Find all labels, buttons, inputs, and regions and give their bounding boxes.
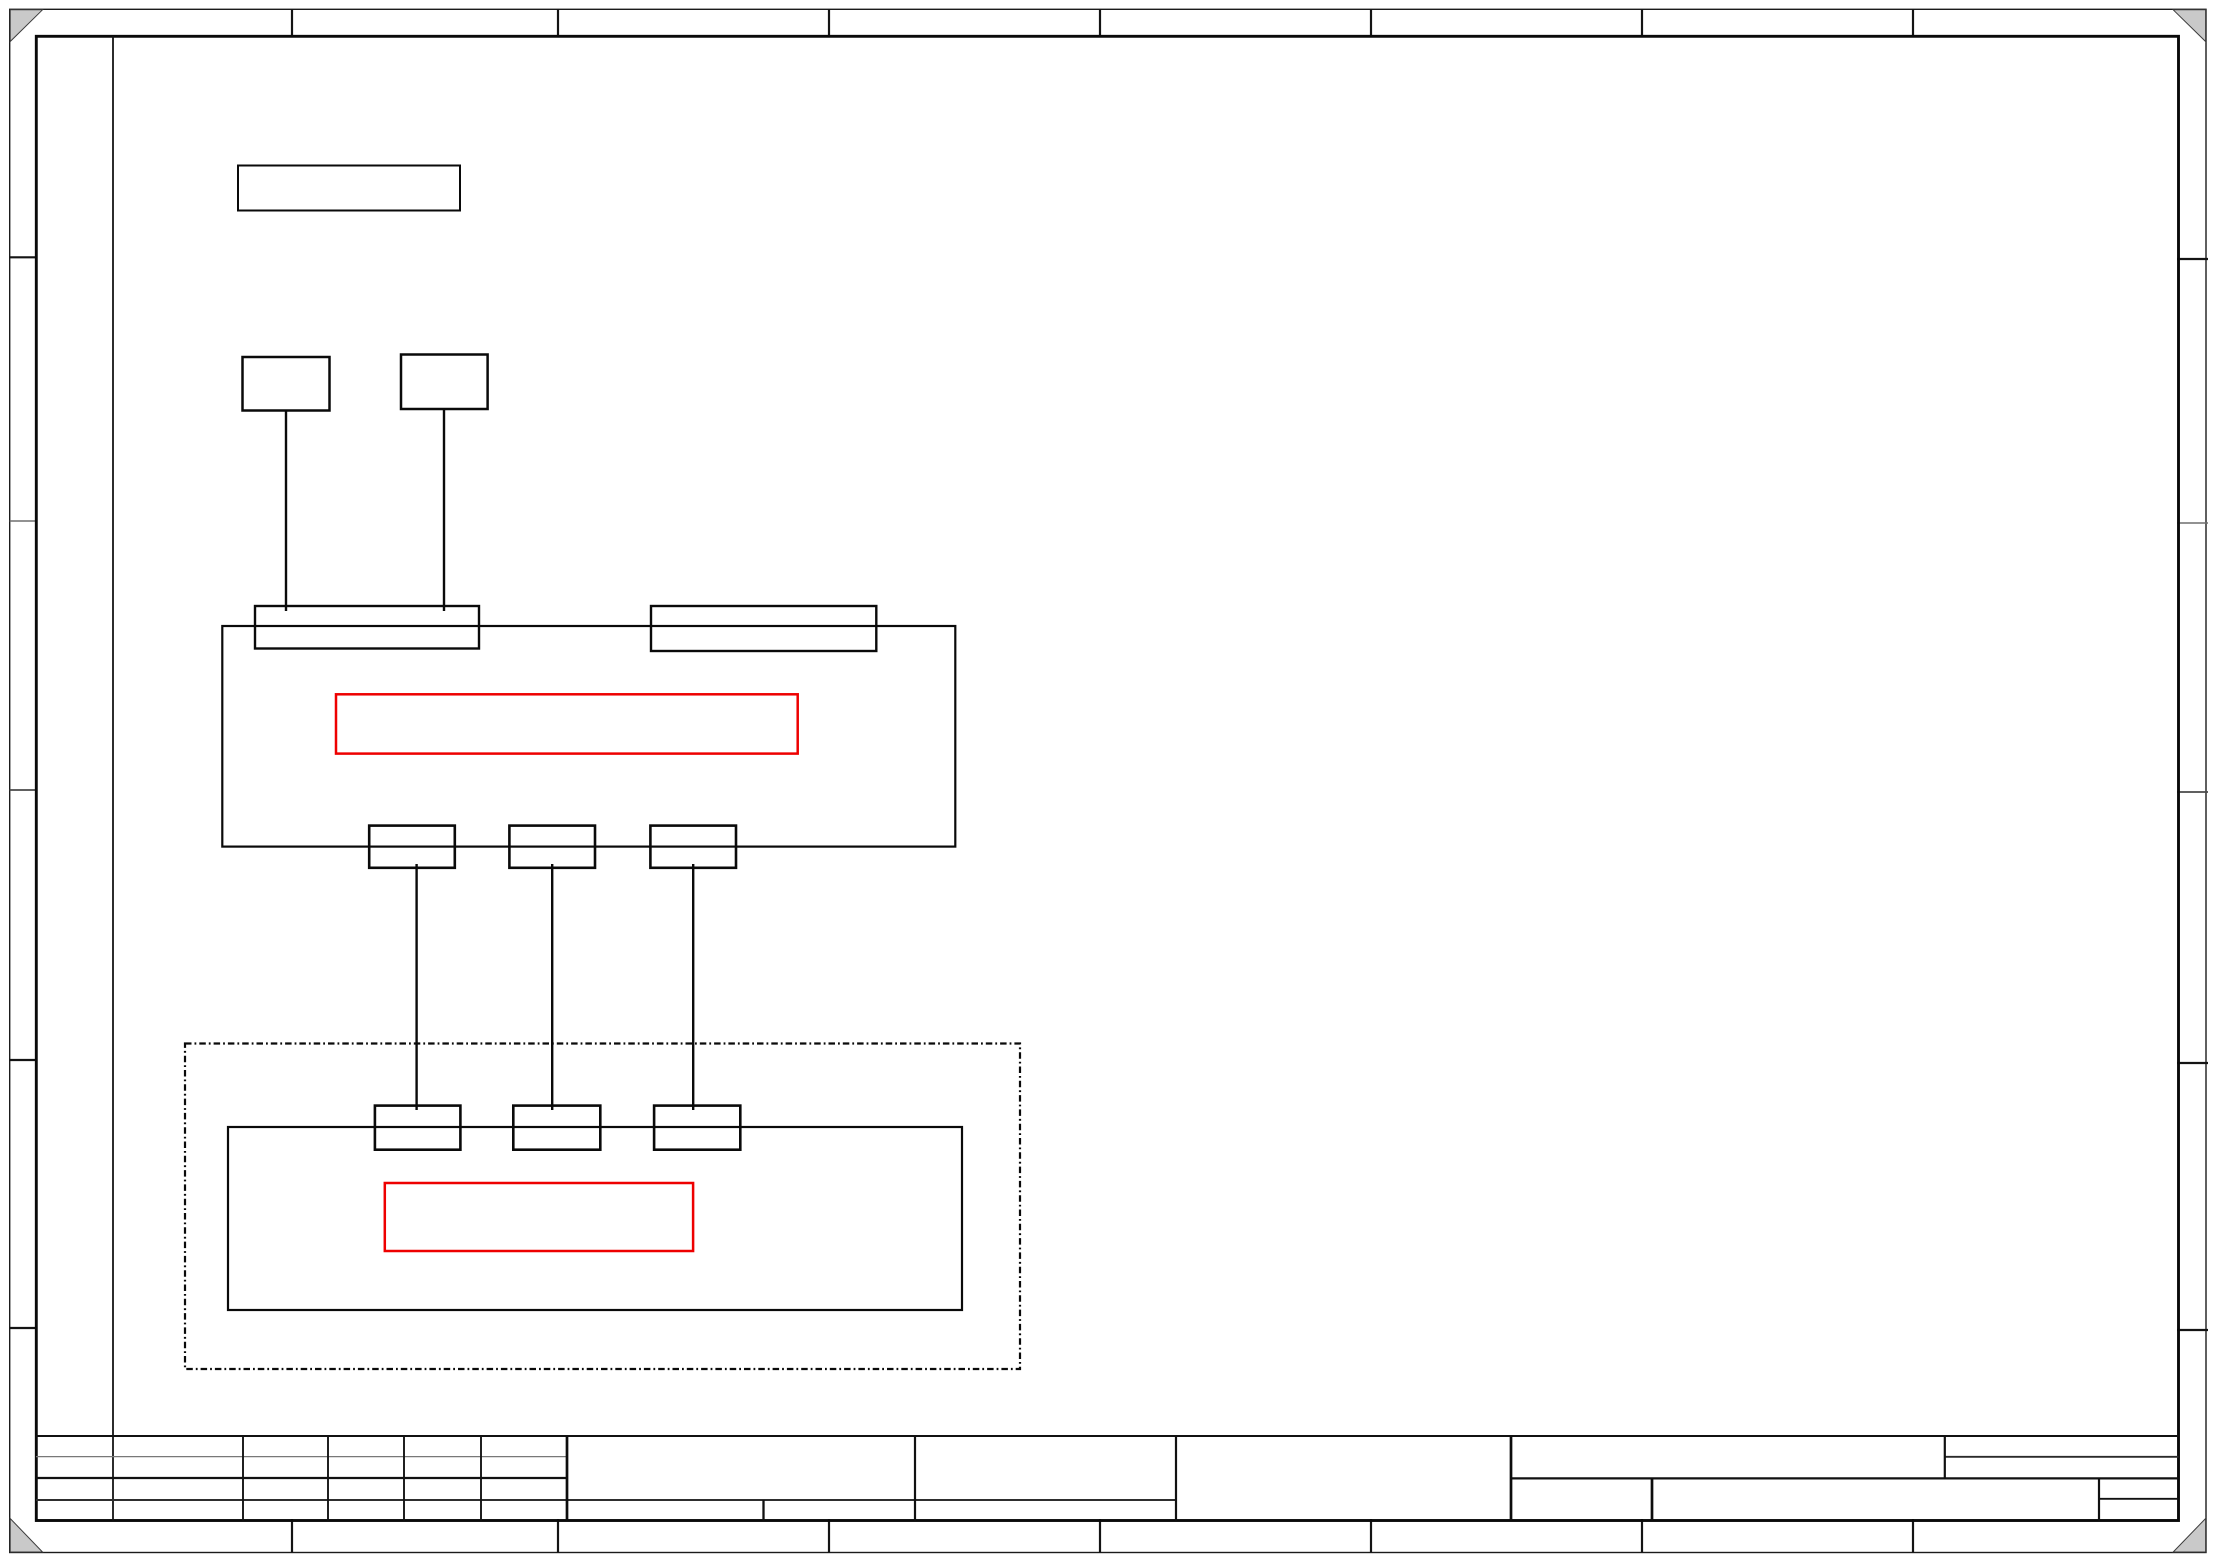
port P3 [369,826,455,868]
port P1 [255,606,479,649]
title block row line r3 left [36,1499,1176,1501]
port P4 [509,826,595,868]
corner triangle bottom-left [10,1519,42,1553]
title block row line r2 left [36,1477,567,1479]
wire W3 [415,864,417,1110]
title block top line [36,1435,2179,1437]
title block column c2 [327,1436,329,1521]
port P6 [375,1106,461,1150]
title block column c5 [566,1436,569,1521]
dash-dot boundary [185,1044,1020,1370]
title block row line r3 right [2099,1498,2179,1500]
zone tick marks right edge [2177,259,2208,1330]
corner triangle bottom-right [2173,1519,2205,1553]
module M2 [228,1127,962,1310]
title block column c10 [1651,1478,1654,1520]
port P2 [651,606,876,651]
title block column c11 [1944,1436,1946,1478]
port P5 [650,826,736,868]
wire W4 [551,864,553,1110]
wire W5 [692,864,694,1110]
title block column c6 [762,1500,764,1521]
red label box L1 [336,694,798,753]
title block row line r1 left [36,1456,567,1458]
frame left column divider [112,36,114,1520]
wire W1 [285,411,287,612]
title block column c1 [242,1436,244,1521]
corner triangle top-right [2173,10,2205,42]
block B1 [243,357,330,411]
title block column c8 [1175,1436,1177,1521]
title block column c7 [914,1436,916,1521]
label box [238,166,460,211]
title block column c9 [1510,1436,1513,1521]
port P7 [513,1106,600,1150]
corner triangle top-left [10,10,42,42]
zone tick marks top edge [292,9,1913,37]
port P8 [654,1106,740,1150]
title block column c12 [2098,1478,2100,1520]
title block column c3 [403,1436,405,1521]
zone tick marks left edge [10,257,38,1328]
title block column c4 [480,1436,482,1521]
title block row line r1 right [1945,1456,2179,1458]
module M1 [222,626,955,847]
block B2 [401,355,488,410]
zone tick marks bottom edge [292,1519,1913,1553]
wire W2 [443,409,445,611]
title block row line r2 right [1511,1477,2179,1479]
red label box L2 [385,1183,693,1251]
